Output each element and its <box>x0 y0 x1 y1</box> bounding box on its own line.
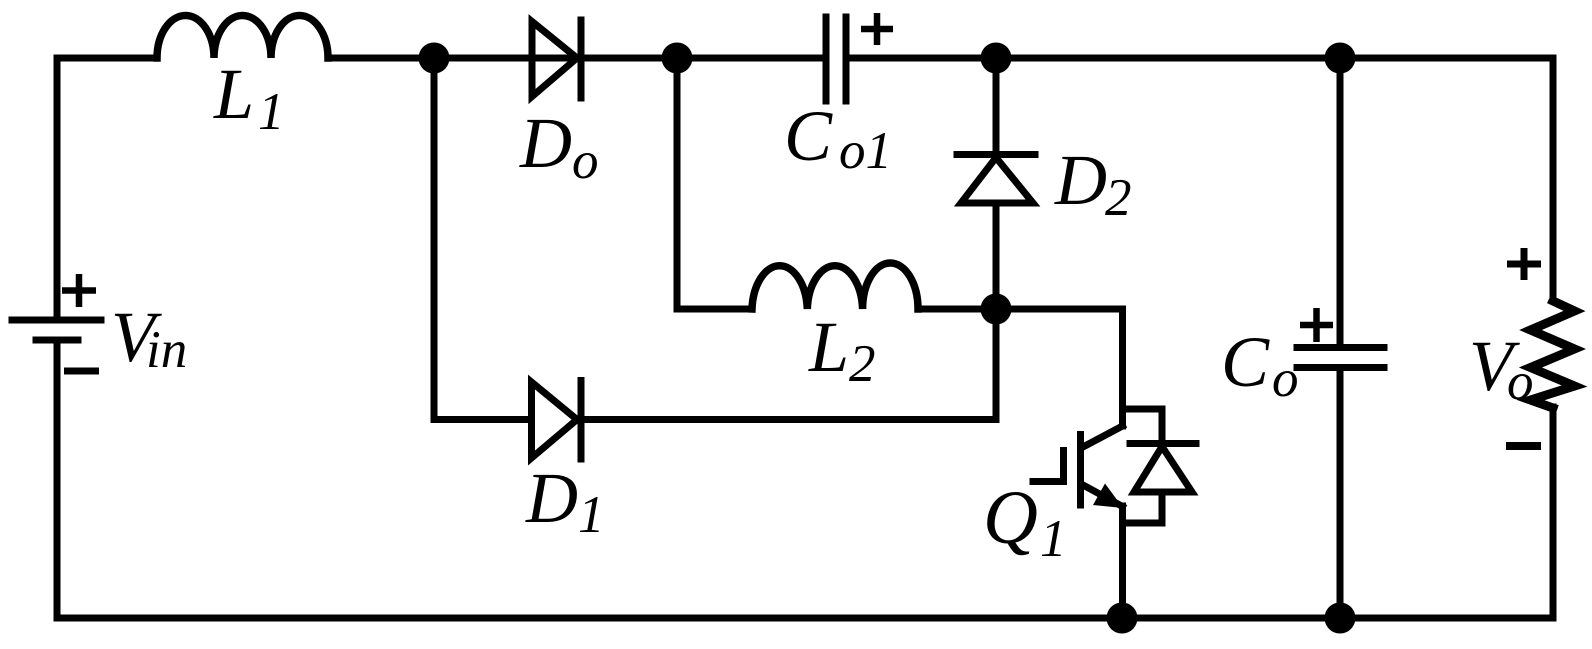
transistor Q1 emitter arrowhead <box>1093 484 1123 509</box>
node Co-bottom junction dot <box>1325 603 1356 634</box>
wire bottom rail <box>57 615 1553 622</box>
wire top from L1 to Co1 left plate <box>328 55 826 62</box>
wire right rail lower <box>1550 407 1557 618</box>
wire D1 to riser <box>581 309 996 420</box>
transistor Q1 gate bar <box>1060 451 1067 482</box>
wire node B down and left leg of L2 <box>677 58 752 309</box>
node Co-top junction dot <box>1325 43 1356 74</box>
capacitor Co1 right plate <box>843 17 850 101</box>
capacitor Co1 left plate <box>823 17 830 101</box>
wire node C down to D2 <box>993 58 1000 154</box>
svg-text:1: 1 <box>258 83 285 141</box>
node D junction dot <box>981 294 1012 325</box>
minus sign Vin <box>64 368 99 375</box>
svg-text:Q: Q <box>983 476 1038 560</box>
svg-text:D: D <box>1054 140 1107 220</box>
Q1 antiparallel diode cathode bar <box>1130 440 1196 447</box>
wire right rail upper <box>1550 58 1557 301</box>
svg-text:2: 2 <box>849 335 876 393</box>
svg-text:o: o <box>572 132 599 190</box>
svg-text:L: L <box>213 54 254 134</box>
wire Q1 emitter down to bottom rail <box>1119 506 1126 618</box>
capacitor Co top plate <box>1297 344 1384 351</box>
transistor Q1 gate lead <box>1033 478 1064 485</box>
wire antiparallel diode bottom jog <box>1124 492 1162 523</box>
diode D1 cathode bar <box>578 381 585 460</box>
plus sign Co <box>1300 308 1333 342</box>
node B junction dot <box>662 43 693 74</box>
Q1 antiparallel diode triangle <box>1134 447 1192 493</box>
wire D2 to node D <box>993 203 1000 309</box>
capacitor Co bottom plate <box>1297 364 1384 371</box>
plus sign Vin <box>62 274 96 307</box>
svg-text:D: D <box>525 458 578 538</box>
svg-text:in: in <box>146 321 187 379</box>
node emitter-bottom junction dot <box>1107 603 1138 634</box>
svg-text:o: o <box>1507 353 1534 411</box>
node C junction dot <box>981 43 1012 74</box>
svg-text:D: D <box>519 103 572 183</box>
wire jog to antiparallel diode top <box>1123 409 1163 443</box>
voltage source Vin battery plates <box>12 320 101 340</box>
wire left rail upper <box>54 58 61 320</box>
svg-text:C: C <box>784 96 833 176</box>
node A junction dot <box>419 43 450 74</box>
wire top-left segment <box>57 55 157 62</box>
svg-text:1: 1 <box>1040 510 1067 568</box>
svg-text:o: o <box>1272 350 1299 408</box>
wire L2 right to node D <box>918 306 996 313</box>
wire Co branch upper <box>1337 58 1344 347</box>
svg-text:1: 1 <box>578 486 605 544</box>
wire top from Co1 right plate to top-right corner <box>846 55 1553 62</box>
diode D1 triangle <box>532 382 578 458</box>
inductor L2 <box>752 263 918 309</box>
plus sign Vo <box>1507 248 1541 280</box>
diode D2 triangle <box>961 158 1033 204</box>
diode Do triangle <box>532 22 577 97</box>
transistor Q1 collector lead <box>1083 426 1123 447</box>
svg-text:2: 2 <box>1105 169 1132 227</box>
wire node A down to D1 level <box>434 58 531 420</box>
svg-text:L: L <box>808 307 849 387</box>
wire left rail lower <box>54 340 61 618</box>
plus sign Co1 <box>861 13 893 45</box>
wire node D right and down to Q1 collector <box>996 309 1123 426</box>
wire Co branch lower <box>1337 368 1344 619</box>
diode Do cathode bar <box>578 20 585 98</box>
svg-text:o1: o1 <box>839 122 892 180</box>
diode D2 cathode bar <box>957 151 1035 158</box>
inductor L1 <box>157 16 328 59</box>
svg-text:C: C <box>1221 322 1270 402</box>
transistor Q1 emitter lead <box>1083 485 1123 507</box>
transistor Q1 body bar <box>1077 435 1084 506</box>
resistor Vo zigzag <box>1531 301 1575 408</box>
minus sign Vo <box>1506 442 1541 450</box>
